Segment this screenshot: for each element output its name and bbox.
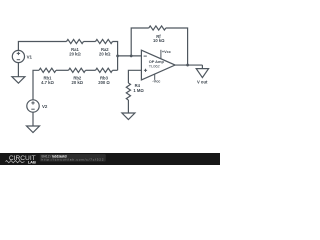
svg-text:V out: V out (197, 80, 208, 85)
footer text box (40, 154, 106, 161)
wire Rb1 to Rb2 (56, 69, 69, 71)
wire Rb2 to Rb3 (86, 69, 96, 71)
wire Ra2 corner down through minus node to Rb row (113, 42, 118, 71)
svg-text:20 kΩ: 20 kΩ (72, 80, 84, 85)
wire plus input to R4 corner (128, 70, 141, 83)
svg-text:+Vcc: +Vcc (162, 50, 171, 54)
svg-text:200 Ω: 200 Ω (98, 80, 110, 85)
wire Rb3 to junction column (113, 69, 118, 71)
ground under V1 (17, 63, 19, 77)
svg-text:V1: V1 (27, 54, 33, 59)
footer watermark bar (0, 153, 220, 165)
ground under V2 (32, 112, 34, 126)
resistor Ra2 (96, 39, 113, 43)
ground under R4 (122, 113, 135, 120)
svg-text:-Vcc: -Vcc (152, 80, 160, 84)
wire V2 top lead to Rb1 (33, 70, 39, 100)
resistor R4 (126, 83, 130, 100)
svg-text:V2: V2 (42, 104, 48, 109)
node junction feedback to output line (186, 64, 189, 67)
wire Rf to output column (166, 28, 188, 65)
wire feedback branch up and over to Rf (131, 28, 149, 56)
wire output line (175, 64, 202, 66)
resistor Ra1 (67, 39, 84, 43)
wire V1 top lead and top row to Ra1 (18, 42, 66, 51)
resistor Rb2 (69, 68, 86, 72)
resistor Rf (149, 26, 166, 30)
wire minus input line (118, 55, 142, 57)
wire R4 to ground (127, 100, 129, 113)
voltage source V2 (27, 100, 39, 112)
voltage source V1 (12, 50, 24, 62)
svg-text:10 kΩ: 10 kΩ (153, 38, 165, 43)
svg-text:1 MΩ: 1 MΩ (133, 88, 144, 93)
pin +Vcc stub (160, 50, 162, 59)
wire Ra1 to Ra2 (84, 41, 96, 43)
resistor Rb3 (96, 68, 113, 72)
node junction at feedback column and minus line (130, 55, 133, 58)
node junction at Ra/Rb column and minus line (116, 55, 119, 58)
output port V out (201, 65, 203, 69)
svg-text:4.7 kΩ: 4.7 kΩ (41, 80, 54, 85)
op-amp U1 TL062 (141, 50, 175, 80)
resistor Rb1 (39, 68, 56, 72)
pin -Vcc stub (154, 74, 156, 80)
svg-text:TL062: TL062 (149, 63, 160, 68)
svg-text:http://circuitlab.com/c/7cf522: http://circuitlab.com/c/7cf522 (42, 158, 104, 162)
svg-text:20 kΩ: 20 kΩ (99, 52, 111, 57)
svg-text:20 kΩ: 20 kΩ (69, 52, 81, 57)
svg-text:LAB: LAB (28, 160, 36, 165)
